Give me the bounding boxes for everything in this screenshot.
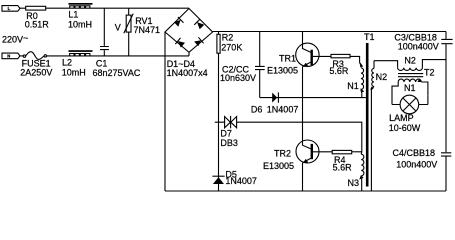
svg-text:N1: N1 <box>347 81 359 91</box>
svg-text:T2: T2 <box>424 68 435 78</box>
svg-text:E13005: E13005 <box>267 66 298 76</box>
svg-text:D7: D7 <box>220 128 232 138</box>
svg-text:D6: D6 <box>251 104 263 114</box>
svg-text:T1: T1 <box>364 32 375 42</box>
svg-text:L: L <box>8 6 11 11</box>
svg-text:N2: N2 <box>404 56 416 66</box>
svg-text:220V~: 220V~ <box>2 33 28 45</box>
svg-text:C4/CBB18: C4/CBB18 <box>393 148 436 158</box>
svg-text:1N4007: 1N4007 <box>267 104 299 114</box>
svg-text:N: N <box>7 54 10 59</box>
svg-text:TR1: TR1 <box>279 53 296 63</box>
svg-text:10n630V: 10n630V <box>220 73 256 83</box>
svg-text:TR2: TR2 <box>274 148 291 158</box>
svg-text:68n275VAC: 68n275VAC <box>93 68 141 78</box>
svg-text:7N471: 7N471 <box>134 25 161 35</box>
svg-text:LAMP: LAMP <box>389 113 414 123</box>
svg-text:L1: L1 <box>68 9 78 19</box>
svg-text:270K: 270K <box>221 43 242 53</box>
svg-text:V: V <box>115 22 121 32</box>
svg-text:N2: N2 <box>376 72 388 82</box>
svg-text:10-60W: 10-60W <box>389 123 421 133</box>
svg-text:10mH: 10mH <box>68 19 92 29</box>
svg-text:100n400V: 100n400V <box>396 159 437 169</box>
svg-text:R2: R2 <box>222 32 234 42</box>
svg-text:E13005: E13005 <box>263 161 294 171</box>
svg-text:N3: N3 <box>348 178 360 188</box>
svg-text:5.6R: 5.6R <box>329 66 349 76</box>
svg-text:2A250V: 2A250V <box>20 68 52 78</box>
svg-text:10mH: 10mH <box>62 68 86 78</box>
svg-text:N1: N1 <box>404 83 416 93</box>
svg-text:100n400V: 100n400V <box>398 42 439 52</box>
svg-text:L2: L2 <box>62 57 72 67</box>
svg-text:5.6R: 5.6R <box>333 162 353 172</box>
svg-text:1N4007: 1N4007 <box>225 176 257 186</box>
svg-text:0.51R: 0.51R <box>25 19 50 29</box>
svg-text:C1: C1 <box>96 58 108 68</box>
svg-text:1N4007x4: 1N4007x4 <box>167 68 208 78</box>
svg-text:DB3: DB3 <box>220 138 238 148</box>
